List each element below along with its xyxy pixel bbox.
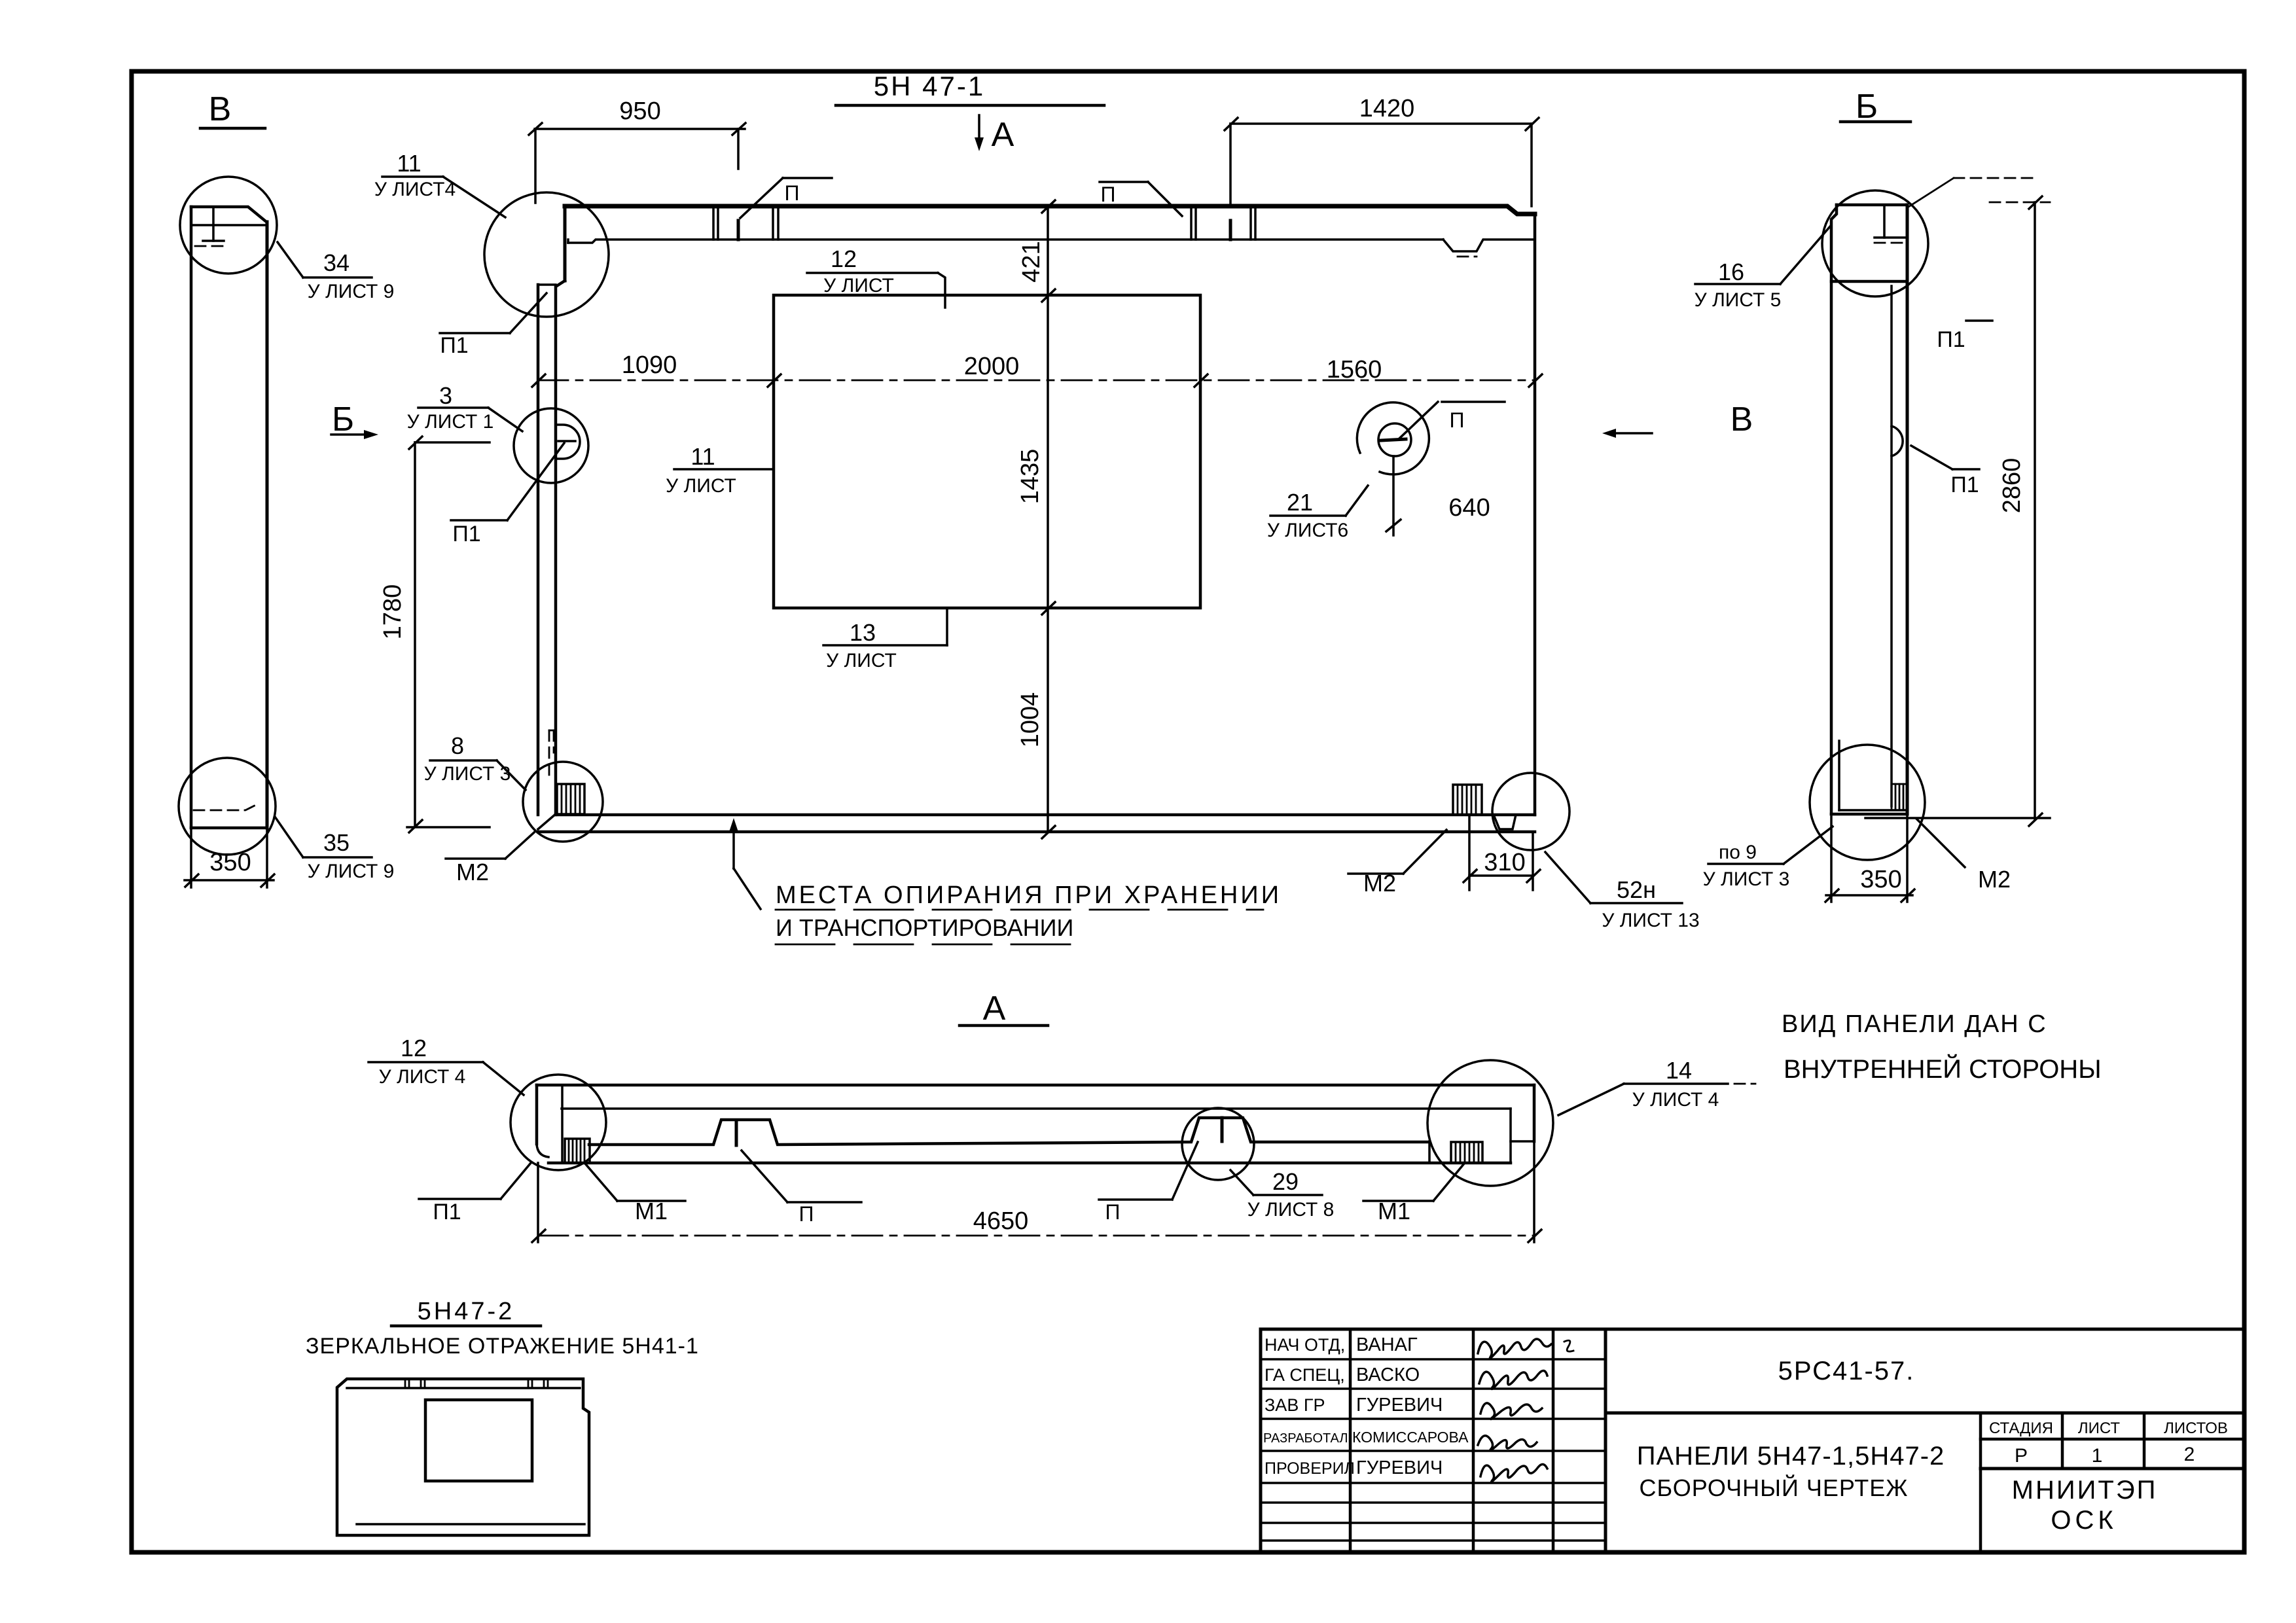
svg-text:1090: 1090 [622,351,677,379]
svg-text:ГА СПЕЦ,: ГА СПЕЦ, [1265,1365,1345,1385]
svg-text:2: 2 [2184,1444,2195,1465]
svg-text:П1: П1 [452,522,480,546]
svg-text:П1: П1 [433,1200,461,1224]
svg-text:РАЗРАБОТАЛ: РАЗРАБОТАЛ [1263,1431,1348,1446]
svg-text:ГУРЕВИЧ: ГУРЕВИЧ [1356,1395,1443,1416]
svg-text:А: А [983,990,1006,1027]
svg-text:29: 29 [1272,1168,1299,1195]
svg-text:М2: М2 [1978,866,2011,893]
svg-text:ЛИСТОВ: ЛИСТОВ [2164,1419,2228,1437]
svg-text:350: 350 [209,849,251,876]
svg-text:МНИИТЭП: МНИИТЭП [2012,1476,2158,1505]
svg-text:У ЛИСТ4: У ЛИСТ4 [374,179,456,200]
svg-text:11: 11 [691,443,715,470]
svg-text:2860: 2860 [1998,458,2026,514]
svg-text:ЛИСТ: ЛИСТ [2078,1419,2121,1437]
svg-text:В: В [1731,401,1753,438]
svg-text:П: П [1101,183,1116,206]
svg-text:А: А [992,116,1014,154]
svg-text:У ЛИСТ 13: У ЛИСТ 13 [1602,910,1699,931]
svg-text:ПАНЕЛИ 5Н47-1,5Н47-2: ПАНЕЛИ 5Н47-1,5Н47-2 [1637,1442,1945,1471]
svg-text:МЕСТА ОПИРАНИЯ ПРИ ХРАНЕНИИ: МЕСТА ОПИРАНИЯ ПРИ ХРАНЕНИИ [776,882,1282,909]
svg-text:ГУРЕВИЧ: ГУРЕВИЧ [1356,1457,1443,1478]
svg-text:640: 640 [1448,494,1490,522]
svg-text:У ЛИСТ 4: У ЛИСТ 4 [379,1066,466,1088]
svg-text:П: П [1105,1200,1121,1224]
svg-text:1560: 1560 [1327,356,1382,383]
svg-text:950: 950 [619,98,660,125]
svg-text:КОМИССАРОВА: КОМИССАРОВА [1352,1429,1469,1446]
svg-text:8: 8 [451,732,464,759]
svg-text:П1: П1 [1950,473,1979,497]
svg-text:Р: Р [2015,1445,2028,1467]
svg-text:4650: 4650 [973,1207,1029,1235]
svg-text:21: 21 [1287,489,1313,516]
svg-text:У ЛИСТ6: У ЛИСТ6 [1267,520,1348,541]
svg-text:У ЛИСТ: У ЛИСТ [823,275,894,296]
svg-text:34: 34 [323,249,350,276]
svg-text:П1: П1 [1937,327,1965,352]
svg-text:НАЧ ОТД,: НАЧ ОТД, [1265,1335,1345,1355]
svg-text:Б: Б [332,401,354,438]
svg-text:1: 1 [2092,1445,2103,1467]
svg-text:У ЛИСТ: У ЛИСТ [826,650,897,671]
svg-text:У ЛИСТ 9: У ЛИСТ 9 [308,861,395,882]
svg-text:У ЛИСТ: У ЛИСТ [666,475,736,497]
svg-text:1780: 1780 [379,584,406,640]
svg-text:У ЛИСТ 1: У ЛИСТ 1 [407,411,494,433]
svg-text:310: 310 [1484,849,1525,876]
svg-text:12: 12 [401,1035,427,1061]
svg-text:5Н47-2: 5Н47-2 [418,1298,515,1325]
svg-text:ПРОВЕРИЛ: ПРОВЕРИЛ [1265,1459,1355,1478]
svg-text:У ЛИСТ 4: У ЛИСТ 4 [1632,1089,1719,1111]
svg-text:2000: 2000 [964,353,1020,380]
svg-text:СТАДИЯ: СТАДИЯ [1989,1419,2053,1437]
svg-text:1435: 1435 [1016,449,1044,505]
svg-text:СБОРОЧНЫЙ ЧЕРТЕЖ: СБОРОЧНЫЙ ЧЕРТЕЖ [1639,1474,1908,1501]
svg-text:421: 421 [1018,241,1045,282]
svg-text:по 9: по 9 [1719,842,1757,863]
svg-text:35: 35 [323,829,350,856]
svg-text:14: 14 [1666,1057,1692,1084]
svg-text:М2: М2 [456,859,489,885]
svg-text:1004: 1004 [1016,692,1044,748]
svg-text:И ТРАНСПОРТИРОВАНИИ: И ТРАНСПОРТИРОВАНИИ [776,914,1073,941]
svg-text:П1: П1 [440,333,468,358]
svg-text:1420: 1420 [1359,95,1415,122]
svg-text:У ЛИСТ 3: У ЛИСТ 3 [1703,868,1790,890]
svg-text:ВАСКО: ВАСКО [1356,1364,1420,1385]
svg-text:5РС41-57.: 5РС41-57. [1778,1357,1915,1385]
svg-text:У ЛИСТ 9: У ЛИСТ 9 [308,281,395,302]
svg-text:ОСК: ОСК [2051,1506,2117,1535]
svg-text:ВНУТРЕННЕЙ СТОРОНЫ: ВНУТРЕННЕЙ СТОРОНЫ [1784,1054,2102,1084]
svg-text:Б: Б [1856,88,1878,126]
svg-text:13: 13 [850,619,876,646]
svg-text:11: 11 [397,150,421,177]
svg-text:ВИД ПАНЕЛИ ДАН С: ВИД ПАНЕЛИ ДАН С [1782,1010,2047,1038]
svg-text:12: 12 [831,245,857,272]
svg-text:П: П [799,1202,814,1226]
svg-text:У ЛИСТ 5: У ЛИСТ 5 [1695,289,1782,311]
svg-text:У ЛИСТ 8: У ЛИСТ 8 [1247,1199,1335,1221]
svg-text:5Н 47-1: 5Н 47-1 [874,71,985,101]
svg-text:ЗАВ ГР: ЗАВ ГР [1265,1395,1325,1415]
svg-text:ЗЕРКАЛЬНОЕ ОТРАЖЕНИЕ 5Н41-1: ЗЕРКАЛЬНОЕ ОТРАЖЕНИЕ 5Н41-1 [306,1334,699,1359]
svg-text:ВАНАГ: ВАНАГ [1356,1334,1418,1355]
svg-text:52н: 52н [1617,876,1656,903]
svg-text:У ЛИСТ 3: У ЛИСТ 3 [424,763,511,785]
svg-text:16: 16 [1718,259,1744,285]
svg-text:П: П [1450,408,1465,432]
svg-text:3: 3 [439,382,452,409]
svg-text:В: В [209,90,232,128]
svg-text:350: 350 [1860,866,1901,893]
svg-text:П: П [785,181,800,205]
